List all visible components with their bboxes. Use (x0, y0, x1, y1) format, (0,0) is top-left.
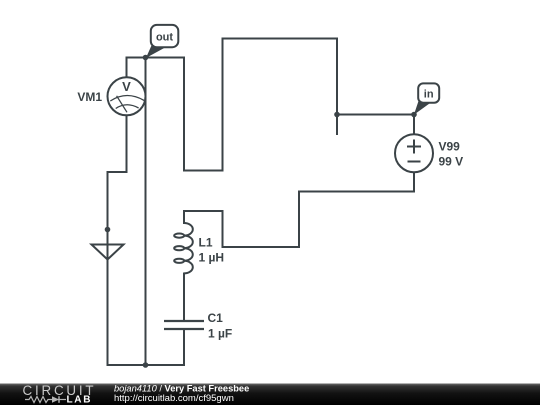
svg-text:L1: L1 (199, 236, 213, 250)
wire top horizontal y38 (223, 38, 338, 40)
node bottom rail junction (143, 362, 149, 368)
svg-text:V99: V99 (439, 140, 461, 154)
wire inductor top lead (183, 211, 185, 223)
flag out tail (146, 46, 166, 59)
svg-text:C1: C1 (208, 311, 224, 325)
wire voltmeter bottom lead (126, 115, 128, 172)
wire horizontal y191 (299, 191, 414, 193)
svg-text:out: out (156, 32, 173, 44)
wire right vertical x337 with stub (336, 39, 338, 135)
wire middle vertical x145 (145, 58, 147, 366)
voltmeter VM1 (108, 77, 146, 115)
wire vertical x299 (298, 192, 300, 248)
flag in box (418, 83, 439, 102)
footer logo diode bar (58, 396, 60, 403)
wire tall vertical x222 (222, 39, 224, 171)
wire capacitor bottom lead (183, 329, 185, 365)
footer logo diode (52, 396, 59, 403)
node out junction (143, 55, 149, 61)
svg-text:1 µF: 1 µF (208, 327, 232, 341)
footer bar (0, 384, 540, 405)
node in junction (411, 112, 417, 118)
svg-text:V: V (122, 79, 131, 94)
svg-text:1 µH: 1 µH (199, 251, 225, 265)
wire voltmeter top lead (126, 58, 128, 79)
svg-text:VM1: VM1 (77, 90, 102, 104)
svg-text:LAB: LAB (67, 395, 93, 405)
wire V99 bottom lead (413, 172, 415, 192)
inductor L1 (174, 223, 193, 273)
wire inductor to capacitor (183, 274, 185, 322)
flag out box (151, 25, 179, 47)
ground (92, 245, 124, 260)
wire horizontal y211 (184, 210, 223, 212)
voltage source V99 (395, 134, 433, 172)
wire horizontal y247 (223, 246, 300, 248)
wire top-left horizontal net out (127, 57, 185, 59)
wire left vertical ground branch (107, 172, 109, 365)
wire V99 top lead (413, 115, 415, 135)
wire bottom rail (108, 364, 185, 366)
node ground junction (105, 227, 111, 233)
wire vertical x184 upper (183, 58, 185, 171)
wire vertical x222 lower (222, 211, 224, 247)
footer logo circuit line (25, 397, 66, 403)
svg-text:99 V: 99 V (439, 155, 464, 169)
flag in tail (414, 101, 431, 115)
wire horizontal net in (337, 114, 414, 116)
svg-text:http://circuitlab.com/cf95gwn: http://circuitlab.com/cf95gwn (114, 393, 234, 404)
wire horizontal to ground branch (108, 171, 127, 173)
svg-text:in: in (424, 89, 434, 101)
capacitor C1 (164, 321, 204, 329)
node stub junction (334, 112, 340, 118)
wire horizontal y170 (184, 170, 223, 172)
